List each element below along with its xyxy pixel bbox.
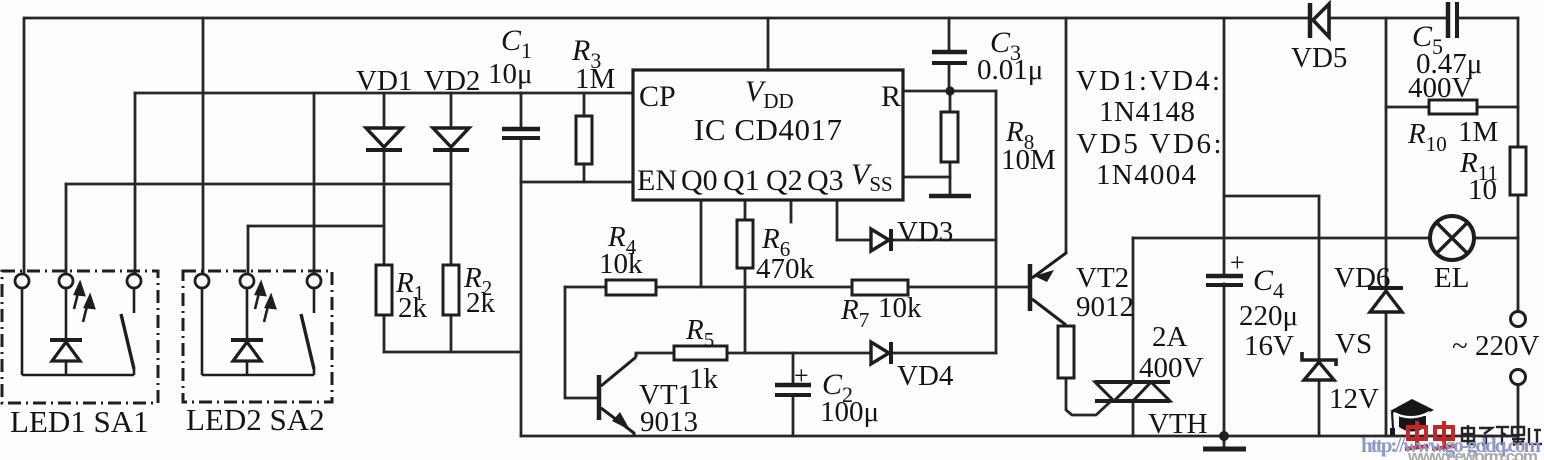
capacitor C3 (932, 52, 967, 63)
resistor R11 (1510, 147, 1526, 195)
resistor R3 (576, 116, 592, 164)
svg-text:VD3: VD3 (897, 216, 953, 248)
svg-text:CP: CP (639, 80, 676, 113)
svg-text:1M: 1M (575, 63, 615, 95)
svg-text:VD5: VD5 (1291, 42, 1347, 74)
wire VSS pin (903, 176, 950, 179)
wire vertical to LED1 terminal 2 (65, 184, 68, 274)
lamp EL (1430, 216, 1474, 260)
svg-text:~ 220V: ~ 220V (1452, 330, 1539, 362)
wire Q3 pin (836, 200, 839, 240)
wire right column (1517, 18, 1520, 147)
svg-text:1N4148: 1N4148 (1099, 96, 1195, 128)
wire VT2 collector resistor to triac gate (1066, 378, 1110, 415)
LED1 photo-LED symbol (50, 340, 82, 361)
ground bar under R8 (929, 194, 971, 199)
diode VD1 (366, 128, 402, 150)
svg-text:2k: 2k (398, 292, 428, 324)
svg-text:470k: 470k (756, 253, 815, 285)
svg-text:100μ: 100μ (820, 396, 879, 428)
svg-text:1M: 1M (1458, 116, 1498, 148)
svg-text:2A: 2A (1152, 321, 1188, 353)
diode VD3 (871, 229, 891, 251)
LED1 SA1 dashed box (2, 271, 158, 403)
svg-text:12V: 12V (1329, 383, 1379, 415)
wire C3 branch (948, 18, 951, 50)
triac VTH (1095, 382, 1170, 401)
resistor R1 (376, 265, 392, 315)
zener VS (1302, 352, 1336, 380)
wire R10 row (1386, 106, 1429, 109)
wire vertical to LED2 terminal 1 (202, 18, 205, 274)
svg-text:VD2: VD2 (424, 65, 480, 97)
wire R3 branch (583, 93, 586, 116)
svg-text:LED2 SA2: LED2 SA2 (186, 402, 325, 437)
LED1 terminal circles (15, 274, 141, 288)
node R-pin junction dot (945, 86, 954, 95)
wire Q2 stub (790, 200, 793, 222)
wire VD3 row (837, 239, 869, 242)
wire VD1-R1 branch (383, 93, 386, 126)
svg-text:www.eeworm.com: www.eeworm.com (1407, 447, 1538, 460)
wire VDD pin (767, 18, 770, 70)
resistor R5 (674, 346, 727, 360)
svg-text:VT2: VT2 (1076, 262, 1129, 294)
wire R1 R2 bottom row (384, 351, 521, 354)
wire R5 VD4 row (636, 352, 674, 355)
junction dot at C4 bottom (1219, 431, 1229, 441)
op-amp IC CD4017 box (633, 70, 903, 200)
wire C1 branch (520, 93, 523, 126)
transistor VT1 (599, 353, 636, 436)
svg-text:400V: 400V (1408, 72, 1473, 104)
capacitor C4 (1206, 276, 1243, 285)
svg-text:VS: VS (1335, 328, 1372, 360)
LED2 internal wires (202, 288, 314, 375)
wire LED2 terminal 2 link row (248, 225, 384, 228)
LED2 terminal circles (195, 274, 321, 288)
wire node A vertical (1385, 18, 1388, 286)
svg-text:400V: 400V (1139, 352, 1204, 384)
wire Q1 pin to R6 (744, 200, 747, 220)
svg-text:9012: 9012 (1076, 291, 1134, 323)
wire R pin (903, 90, 996, 93)
wire VT2 emitter vertical (1065, 18, 1068, 252)
wire vertical to LED2 terminal 3 (313, 93, 316, 274)
wire second row (66, 183, 451, 186)
wire C4 vertical (1223, 18, 1226, 275)
svg-text:VD4: VD4 (897, 360, 954, 392)
resistor R4 (606, 280, 656, 295)
svg-text:IC CD4017: IC CD4017 (694, 112, 842, 147)
wire CP row (135, 92, 633, 95)
transistor VT2 (1030, 252, 1066, 325)
LED2 photo-LED symbol (231, 340, 263, 361)
svg-text:VD1: VD1 (356, 65, 412, 97)
LED1 internal wires (22, 288, 134, 375)
svg-text:Q3: Q3 (807, 164, 844, 197)
diode VD5 (1310, 3, 1329, 38)
wire EN row (521, 181, 633, 184)
diode VD4 (871, 342, 891, 364)
watermark red characters (1405, 421, 1455, 449)
wire EN vertical (520, 182, 523, 436)
terminal circle top 220V (1511, 312, 1526, 327)
watermark graduation cap (1390, 399, 1434, 435)
capacitor C2 (775, 385, 811, 395)
svg-text:EN: EN (637, 164, 677, 197)
svg-text:220μ: 220μ (1239, 300, 1298, 332)
capacitor C1 (502, 129, 540, 138)
svg-text:10: 10 (1468, 174, 1497, 206)
svg-text:10μ: 10μ (488, 58, 533, 90)
resistor R6 (737, 220, 753, 268)
LED1 light arrows (74, 283, 94, 322)
svg-text:Q2: Q2 (766, 164, 803, 197)
wire EL right link (1475, 237, 1518, 240)
wire VS branch (1224, 195, 1319, 198)
svg-text:VTH: VTH (1148, 408, 1208, 440)
wire bottom rail (521, 435, 1518, 438)
svg-text:9013: 9013 (640, 406, 698, 438)
svg-text:2k: 2k (466, 287, 496, 319)
wire R4 R7 row to VT2 base (565, 286, 606, 289)
svg-text:10k: 10k (878, 292, 922, 324)
wire Q0 pin (700, 200, 703, 287)
wire triac MT1 down (1132, 401, 1135, 436)
resistor R8 (941, 112, 958, 162)
resistor R7 (852, 280, 908, 295)
wire top VDD rail (25, 17, 1308, 20)
svg-text:1N4004: 1N4004 (1096, 159, 1197, 191)
ground bar bottom (1203, 447, 1246, 452)
wire VD2-R2 branch (450, 93, 453, 126)
switch SA2 (301, 288, 314, 375)
svg-text:+: + (1230, 248, 1245, 277)
svg-text:10k: 10k (599, 248, 643, 280)
svg-text:EL: EL (1434, 262, 1469, 294)
wire vertical to LED1 terminal 3 (134, 93, 137, 274)
svg-text:Q0: Q0 (681, 164, 718, 197)
svg-text:10M: 10M (1001, 144, 1056, 176)
svg-text:R: R (881, 80, 901, 113)
svg-text:16V: 16V (1244, 330, 1294, 362)
wire left vertical to LED1 terminal 1 (23, 18, 26, 274)
resistor R10 (1429, 100, 1477, 114)
resistor at VT2 collector (1058, 326, 1074, 378)
wire ground stem under R8 (949, 177, 952, 195)
svg-text:+: + (794, 361, 809, 390)
svg-text:LED1 SA1: LED1 SA1 (10, 404, 149, 439)
svg-text:0.01μ: 0.01μ (977, 54, 1043, 86)
wire C2 stems (792, 353, 795, 383)
wire R8 stems (949, 91, 952, 112)
wire R4 left drop to VT1 base (565, 287, 597, 398)
svg-text:VD6: VD6 (1334, 262, 1390, 294)
resistor R2 (443, 265, 459, 315)
wire ground stem bottom (1223, 436, 1226, 448)
terminal circle bottom 220V (1511, 370, 1526, 385)
LED2 light arrows (255, 283, 275, 322)
diode VD6 (1368, 288, 1403, 312)
diode VD2 (433, 128, 469, 150)
svg-text:1k: 1k (689, 363, 719, 395)
watermark black site name glyphs (1462, 425, 1542, 445)
wire bottom terminal drop (1517, 385, 1520, 436)
switch SA1 (121, 288, 134, 375)
LED2 SA2 dashed box (183, 271, 332, 402)
capacitor C5 (1448, 2, 1457, 38)
wire triac MT2 up and lamp row (1132, 238, 1135, 382)
svg-text:Q1: Q1 (723, 164, 760, 197)
